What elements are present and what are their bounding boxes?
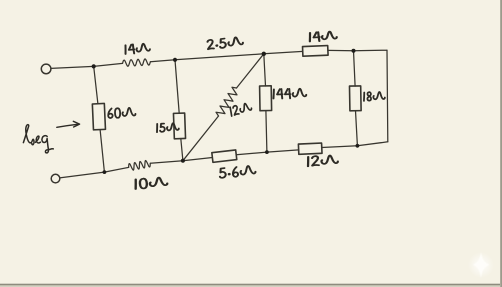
terminal (top-left open circle) (41, 64, 51, 74)
wire diagonal resistor 12ohm to node G (183, 116, 219, 161)
wire resistor 18ohm to node E (356, 111, 358, 146)
label 10ohm (135, 177, 168, 189)
wire resistor 14ohm(right) to node D (328, 49, 354, 51)
wire resistor 5.6ohm to node G (183, 158, 213, 161)
label 18ohm (364, 92, 385, 101)
wire node D down to resistor 18ohm (354, 51, 356, 86)
wire node A to resistor 14ohm left lead (94, 63, 123, 66)
label 5.6ohm (219, 165, 256, 178)
wire node C down to resistor 144ohm (264, 54, 266, 86)
wire terminal to node A (51, 66, 94, 68)
wire node C to resistor 14ohm(right) left lead (264, 51, 303, 53)
wire resistor 144ohm to node F (266, 111, 267, 153)
paper right edge shadow (500, 0, 502, 287)
terminal (bottom-left open circle) (51, 174, 60, 183)
wire node B down to resistor 15ohm (175, 60, 179, 113)
label 60ohm (108, 108, 136, 119)
resistor 15ohm (box, vertical) (173, 113, 185, 139)
resistor 14ohm (zigzag, top left) (123, 59, 151, 66)
label 14ohm (top right) (309, 31, 336, 42)
resistor 18ohm (box, vertical) (349, 86, 361, 111)
label 144ohm (273, 89, 306, 99)
wire resistor 60ohm to node H (100, 130, 104, 173)
wire resistor 10ohm to node H (104, 167, 128, 172)
wire bottom-right corner to node E (357, 142, 387, 146)
arrow (Req pointer) (57, 121, 80, 127)
paper bottom edge shadow (0, 284, 502, 286)
resistor 12ohm (zigzag, diagonal) (216, 87, 237, 116)
wire node F to resistor 5.6ohm right lead (236, 152, 267, 155)
resistor 10ohm (zigzag, bottom left) (129, 161, 151, 171)
resistor 5.6ohm (box, bottom) (212, 150, 237, 162)
junction node E (356, 144, 360, 148)
wire resistor 12ohm to node F (267, 150, 299, 152)
wire node G to resistor 10ohm right lead (150, 161, 183, 164)
wire node C to diagonal resistor 12ohm (237, 54, 264, 88)
sparkle highlight (468, 252, 494, 278)
wire resistor 14ohm to node B (150, 60, 175, 62)
junction node G (181, 159, 185, 163)
label 2.5ohm (207, 36, 243, 49)
resistor 14ohm (box, top right) (303, 46, 329, 57)
resistor 60ohm (box, vertical) (92, 103, 105, 129)
junction node F (265, 150, 269, 154)
junction node H (103, 170, 107, 174)
label Req (cursive) (23, 125, 53, 153)
label 12ohm (diagonal) (230, 102, 253, 116)
wire node E to resistor 12ohm(bottom) right lead (322, 146, 358, 148)
wire node D to top-right corner (354, 49, 388, 52)
junction node D (352, 49, 356, 53)
wire node A down to resistor 60ohm (94, 66, 98, 103)
wire resistor 15ohm to node G (181, 139, 183, 161)
label 15ohm (157, 123, 179, 132)
junction node C (262, 52, 266, 56)
resistor 144ohm (box, vertical) (260, 86, 272, 111)
label 12ohm (bottom) (308, 155, 338, 166)
wire right vertical edge (386, 50, 389, 142)
label 14ohm (top left) (125, 43, 150, 54)
junction node B (173, 58, 177, 62)
junction node A (92, 64, 96, 68)
wire node H to terminal (bottom) (60, 172, 105, 178)
resistor 12ohm (box, bottom) (298, 143, 322, 154)
wire 2.5ohm segment node B to node C (175, 54, 264, 60)
